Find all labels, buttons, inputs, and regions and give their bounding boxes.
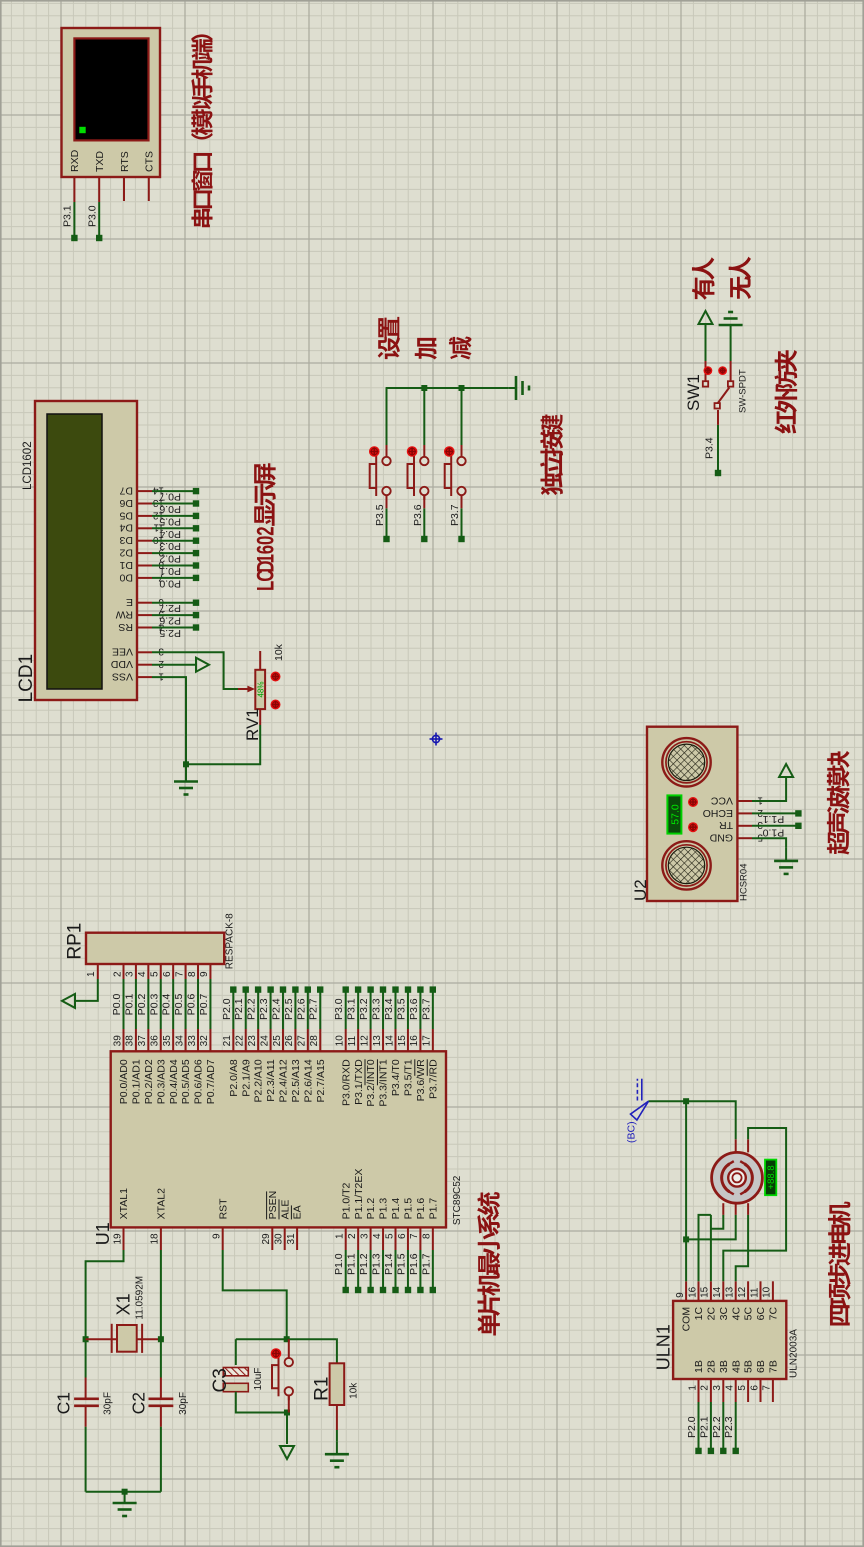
switch SW1: [717, 410, 719, 425]
wire net P2.7: [152, 602, 196, 604]
svg-text:3: 3: [158, 646, 164, 657]
U1 pin P2.7/A15 (pin 28): [319, 1029, 321, 1051]
junction bus P3.6: [421, 385, 427, 391]
svg-text:E: E: [126, 596, 133, 608]
LCD pin D2 (pin 9): [137, 552, 152, 554]
svg-text:7C: 7C: [768, 1306, 780, 1320]
pin TXD: [98, 177, 100, 202]
svg-text:XTAL2: XTAL2: [156, 1188, 168, 1219]
svg-text:RESPACK-8: RESPACK-8: [225, 913, 236, 969]
U1 pin P0.3/AD3 (pin 36): [160, 1029, 162, 1051]
LCD pin VEE (pin 3): [137, 651, 152, 653]
wire VSS to ground: [152, 677, 260, 764]
svg-text:HCSR04: HCSR04: [739, 864, 750, 902]
ULN1 pin 6B (pin 6): [760, 1379, 762, 1402]
potentiometer RV1 body: [255, 670, 265, 709]
label 超声波模块: [827, 751, 850, 855]
svg-text:27: 27: [297, 1035, 308, 1047]
wire net P2.2: [257, 990, 259, 1029]
svg-text:3: 3: [712, 1385, 723, 1391]
ULN1 pin 7B (pin 7): [772, 1379, 774, 1402]
node P3.6 terminal: [421, 536, 427, 542]
svg-text:ULN1: ULN1: [653, 1324, 673, 1370]
svg-text:VDD: VDD: [110, 658, 133, 670]
svg-text:P1.1: P1.1: [762, 813, 784, 825]
wire net P0.5: [152, 515, 196, 517]
svg-text:RW: RW: [116, 609, 133, 621]
svg-text:P2.5: P2.5: [283, 998, 295, 1020]
svg-text:4B: 4B: [730, 1360, 742, 1373]
wire 2C jog to motor phase A: [711, 1215, 723, 1229]
ground U2: [774, 860, 798, 863]
U1 pin P0.5/AD5 (pin 34): [185, 1029, 187, 1051]
svg-text:P1.7: P1.7: [420, 1253, 432, 1275]
node P0.3 terminal: [193, 538, 199, 544]
U1 pin P2.2/A10 (pin 23): [257, 1029, 259, 1051]
svg-text:3: 3: [757, 819, 763, 830]
label 加: [415, 338, 437, 360]
node P0.0 terminal: [193, 575, 199, 581]
svg-text:D7: D7: [119, 485, 133, 497]
wire net P1.1: [357, 1250, 359, 1290]
svg-text:3C: 3C: [718, 1306, 730, 1320]
node P1.0 terminal: [343, 1287, 349, 1293]
svg-text:VCC: VCC: [710, 794, 733, 806]
ground for LCD VSS: [174, 780, 198, 783]
wire net P0.7: [209, 979, 211, 1029]
svg-text:P2.2: P2.2: [711, 1416, 723, 1438]
svg-text:P0.0: P0.0: [111, 994, 123, 1016]
node P2.3 terminal: [733, 1448, 739, 1454]
node P1.5 terminal: [405, 1287, 411, 1293]
svg-text:P2.1/A9: P2.1/A9: [240, 1059, 252, 1097]
svg-text:P0.4/AD4: P0.4/AD4: [168, 1059, 180, 1104]
ground crystal caps: [113, 1502, 137, 1505]
svg-text:U1: U1: [93, 1222, 113, 1245]
svg-text:P1.0/T2: P1.0/T2: [340, 1182, 352, 1219]
svg-text:8: 8: [422, 1233, 433, 1239]
wire BC supply stem: [649, 1100, 687, 1102]
motor pin right tap: [735, 1139, 737, 1152]
svg-text:7: 7: [174, 971, 185, 977]
svg-text:P3.0/RXD: P3.0/RXD: [340, 1059, 352, 1106]
wire net P0.2: [147, 979, 149, 1029]
motor hub: [728, 1169, 746, 1187]
svg-text:VSS: VSS: [112, 671, 133, 683]
power symbol (BC): [631, 1101, 649, 1120]
svg-text:34: 34: [174, 1035, 185, 1047]
wire net P2.7: [319, 990, 321, 1029]
power arrow U2 VCC: [779, 764, 793, 777]
svg-text:2: 2: [253, 526, 280, 535]
U1 pin P2.3/A11 (pin 24): [270, 1029, 272, 1051]
svg-text:ECHO: ECHO: [703, 807, 733, 819]
U1 pin P0.1/AD1 (pin 38): [135, 1029, 137, 1051]
SW1 throw bottom wire to ground: [730, 361, 732, 381]
U1 pin EA (31): [296, 1227, 298, 1250]
svg-text:13: 13: [372, 1035, 383, 1047]
svg-text:P0.5/AD5: P0.5/AD5: [180, 1059, 192, 1104]
svg-text:P2.3/A11: P2.3/A11: [265, 1059, 277, 1102]
svg-text:0: 0: [253, 536, 280, 545]
button bus wire: [386, 387, 509, 389]
LCD pin RW (pin 5): [137, 614, 152, 616]
wire net P2.2 to ULN: [722, 1402, 724, 1451]
svg-text:5: 5: [384, 1233, 395, 1239]
wire net P2.0 to ULN: [698, 1402, 700, 1451]
label 有人: [692, 257, 715, 300]
svg-text:P3.7: P3.7: [449, 504, 461, 526]
node P0.2 terminal: [193, 550, 199, 556]
svg-text:16: 16: [409, 1035, 420, 1047]
wire net P0.6: [197, 979, 199, 1029]
RV1 wiper arrow: [238, 688, 250, 690]
LCD pin D4 (pin 11): [137, 527, 152, 529]
virtual terminal VT1 body: [62, 28, 161, 177]
wire XTAL1 to crystal: [86, 1250, 124, 1378]
wire net P1.0: [345, 1250, 347, 1290]
svg-text:P1.2: P1.2: [365, 1198, 377, 1220]
svg-text:5: 5: [757, 832, 763, 843]
svg-text:ALE: ALE: [279, 1200, 291, 1220]
svg-text:7: 7: [762, 1385, 773, 1391]
svg-text:P3.6/WR: P3.6/WR: [415, 1059, 427, 1101]
node P2.2 terminal: [720, 1448, 726, 1454]
svg-text:P0.2/AD2: P0.2/AD2: [143, 1059, 155, 1104]
wire net P0.6: [152, 503, 196, 505]
svg-text:P2.0: P2.0: [221, 998, 233, 1020]
ultrasonic module U2 body: [647, 727, 737, 901]
label 减: [449, 337, 472, 360]
wire net P0.4: [152, 527, 196, 529]
U1 pin P0.0/AD0 (pin 39): [123, 1029, 125, 1051]
LCD pin VDD (pin 2): [137, 664, 152, 666]
ULN1 pin COM (pin 9): [685, 1281, 687, 1301]
svg-text:1C: 1C: [693, 1306, 705, 1320]
wire net P0.0: [123, 979, 125, 1029]
svg-text:D0: D0: [119, 571, 133, 583]
wire 4C to motor phase B: [736, 1215, 748, 1281]
wire net P0.3: [160, 979, 162, 1029]
U1 pin P3.0/RXD (pin 10): [345, 1029, 347, 1051]
node P2.4 terminal: [280, 986, 286, 992]
wire net P2.6: [307, 990, 309, 1029]
wire net P3.2: [370, 990, 372, 1029]
svg-text:37: 37: [137, 1035, 148, 1047]
pin RTS: [123, 177, 125, 201]
svg-text:RXD: RXD: [69, 149, 81, 172]
wire net P3.5: [407, 990, 409, 1029]
svg-text:P3.7: P3.7: [420, 998, 432, 1020]
capacitor C3 (electrolytic): [223, 1368, 248, 1376]
svg-text:P0.1/AD1: P0.1/AD1: [131, 1059, 143, 1104]
svg-text:D5: D5: [119, 509, 133, 521]
svg-text:1: 1: [158, 671, 164, 682]
motor pin left tap: [735, 1203, 737, 1215]
node P2.6 terminal: [193, 612, 199, 618]
node P1.6 terminal: [417, 1287, 423, 1293]
LCD pin D3 (pin 10): [137, 540, 152, 542]
svg-text:6C: 6C: [755, 1306, 767, 1320]
capacitor C2: [149, 1398, 174, 1401]
svg-text:P2.4/A12: P2.4/A12: [278, 1059, 290, 1102]
wire net P0.1: [152, 565, 196, 567]
svg-text:35: 35: [162, 1035, 173, 1047]
junction bus P3.7: [459, 385, 465, 391]
node P0.6 terminal: [193, 500, 199, 506]
svg-text:P2.3: P2.3: [258, 998, 270, 1020]
svg-text:11: 11: [749, 1287, 760, 1298]
svg-text:D3: D3: [119, 534, 133, 546]
svg-text:4: 4: [372, 1233, 383, 1239]
driver ULN1 body: [673, 1301, 786, 1379]
ULN1 pin 5B (pin 5): [747, 1379, 749, 1402]
U1 pin P3.1/TXD (pin 11): [357, 1029, 359, 1051]
svg-text:6: 6: [253, 545, 280, 554]
svg-text:RP1: RP1: [65, 923, 86, 960]
resistor pack RP1 body: [86, 933, 224, 964]
wire RP1 pin1 to power: [75, 979, 98, 1001]
U1 pin XTAL2 (pin 18): [160, 1227, 162, 1250]
terminal screen: [74, 38, 148, 140]
svg-text:19: 19: [112, 1233, 123, 1245]
junction crystal top: [83, 1336, 89, 1342]
svg-text:P3.2: P3.2: [358, 998, 370, 1020]
wire net P2.0: [232, 990, 234, 1029]
U1 pin XTAL1 (pin 19): [123, 1227, 125, 1250]
svg-text:48%: 48%: [257, 681, 266, 697]
svg-text:ULN2003A: ULN2003A: [788, 1329, 799, 1378]
svg-text:P2.2/A10: P2.2/A10: [253, 1059, 265, 1102]
svg-text:P0.2: P0.2: [159, 553, 181, 565]
wire COM to motor tap right: [686, 1101, 736, 1139]
wire net P3.7: [432, 990, 434, 1029]
svg-text:P3.2/INT0: P3.2/INT0: [365, 1059, 377, 1106]
svg-text:P1.5: P1.5: [395, 1253, 407, 1275]
ULN1 pin 3C (pin 14): [722, 1281, 724, 1301]
svg-text:XTAL1: XTAL1: [118, 1188, 130, 1219]
svg-text:P1.4: P1.4: [383, 1253, 395, 1275]
ULN1 pin 4C (pin 13): [735, 1281, 737, 1301]
svg-text:P0.4: P0.4: [161, 994, 173, 1016]
LCD pin D1 (pin 8): [137, 565, 152, 567]
svg-text:28: 28: [309, 1035, 320, 1047]
svg-text:P3.0: P3.0: [333, 998, 345, 1020]
wire net P2.1: [245, 990, 247, 1029]
wire net P2.4: [282, 990, 284, 1029]
svg-text:P3.5: P3.5: [374, 504, 386, 526]
label 独立按键: [540, 414, 563, 495]
motor pin right C: [747, 1139, 749, 1152]
svg-text:PSEN: PSEN: [267, 1191, 279, 1220]
wire net P0.0: [152, 577, 196, 579]
U1 pin P3.6/WR (pin 16): [419, 1029, 421, 1051]
svg-text:21: 21: [222, 1035, 233, 1047]
node P3.1 terminal: [71, 235, 77, 241]
power arrow RP1: [62, 994, 75, 1008]
ULN1 pin 2B (pin 2): [710, 1379, 712, 1402]
svg-text:16: 16: [687, 1286, 698, 1298]
wire net P2.1 to ULN: [710, 1402, 712, 1451]
svg-text:P2.7: P2.7: [308, 998, 320, 1020]
wire XTAL2 to crystal: [160, 1250, 162, 1378]
svg-text:P3.6: P3.6: [412, 504, 424, 526]
wire net P2.5: [152, 627, 196, 629]
U1 pin P2.6/A14 (pin 27): [307, 1029, 309, 1051]
svg-text:12: 12: [737, 1286, 748, 1298]
svg-text:D4: D4: [119, 522, 133, 534]
ULN1 pin 5C (pin 12): [747, 1281, 749, 1301]
RP1 pin 9: [209, 964, 211, 979]
U2 adjust arrow right: [688, 797, 698, 807]
svg-text:13: 13: [725, 1286, 736, 1298]
svg-text:10k: 10k: [273, 643, 285, 661]
svg-text:8: 8: [187, 971, 198, 977]
node P1.2 terminal: [367, 1287, 373, 1293]
junction cap bus: [122, 1489, 128, 1495]
node P3.0 terminal: [343, 986, 349, 992]
svg-text:P1.0: P1.0: [333, 1253, 345, 1275]
ULN1 pin 6C (pin 11): [760, 1281, 762, 1301]
U1 pin P1.7 (pin 8): [432, 1227, 434, 1250]
svg-text:P3.5: P3.5: [395, 998, 407, 1020]
svg-text:P2.4: P2.4: [270, 998, 282, 1020]
svg-text:P3.1: P3.1: [346, 998, 358, 1020]
svg-text:11: 11: [347, 1035, 358, 1046]
U1 pin P0.6/AD6 (pin 33): [197, 1029, 199, 1051]
svg-text:3: 3: [125, 971, 136, 977]
RP1 pin 5: [160, 964, 162, 979]
svg-text:P2.6: P2.6: [295, 998, 307, 1020]
svg-text:2: 2: [757, 807, 763, 818]
node P3.5 terminal: [405, 986, 411, 992]
U1 pin PSEN (29): [271, 1227, 273, 1250]
wire net P0.4: [172, 979, 174, 1029]
svg-text:P0.3/AD3: P0.3/AD3: [155, 1059, 167, 1104]
U1 pin RST (pin 9): [222, 1227, 224, 1250]
label 串口窗口（模拟手机端）: [191, 34, 213, 227]
junction COM B: [683, 1098, 689, 1104]
wire C2 to bus: [160, 1427, 162, 1492]
svg-text:5: 5: [737, 1385, 748, 1391]
svg-text:P1.4: P1.4: [390, 1198, 402, 1220]
wire net P3.6: [419, 990, 421, 1029]
label 设置: [378, 317, 400, 359]
wire net P2.3: [270, 990, 272, 1029]
svg-text:P0.7/AD7: P0.7/AD7: [205, 1059, 217, 1104]
U1 pin P1.6 (pin 7): [419, 1227, 421, 1250]
junction C3/reset button: [284, 1410, 290, 1416]
wire bus to ground: [124, 1492, 126, 1503]
U1 pin P1.3 (pin 4): [382, 1227, 384, 1250]
node P2.5 terminal: [193, 624, 199, 630]
wire net P0.5: [185, 979, 187, 1029]
svg-text:14: 14: [712, 1286, 723, 1298]
svg-text:P3.1: P3.1: [62, 205, 74, 227]
svg-text:P1.3: P1.3: [371, 1253, 383, 1275]
RP1 pin 4: [147, 964, 149, 979]
svg-text:1: 1: [253, 554, 280, 563]
svg-text:5B: 5B: [743, 1360, 755, 1373]
node P2.5 terminal: [292, 986, 298, 992]
svg-text:2B: 2B: [706, 1360, 718, 1373]
resistor R1: [330, 1363, 345, 1405]
svg-text:10uF: 10uF: [253, 1368, 264, 1391]
U1 pin P1.2 (pin 3): [370, 1227, 372, 1250]
svg-text:7B: 7B: [768, 1360, 780, 1373]
svg-text:P3.7/RD: P3.7/RD: [427, 1059, 439, 1099]
ULN1 pin 3B (pin 3): [722, 1379, 724, 1402]
node P3.5 terminal: [383, 536, 389, 542]
node P2.7 terminal: [317, 986, 323, 992]
label 无人: [729, 257, 751, 299]
svg-text:10: 10: [762, 1286, 773, 1298]
cap bus wire: [86, 1491, 161, 1493]
node P2.1 terminal: [708, 1448, 714, 1454]
junction crystal bottom: [158, 1336, 164, 1342]
svg-text:57.0: 57.0: [669, 804, 681, 825]
LCD pin D6 (pin 13): [137, 503, 152, 505]
wire net P0.3: [152, 540, 196, 542]
U2 pin TR (pin 3): [737, 825, 752, 827]
LCD pin D7 (pin 14): [137, 490, 152, 492]
svg-text:P1.1: P1.1: [346, 1253, 358, 1275]
svg-text:10k: 10k: [349, 1382, 360, 1399]
svg-text:P2.7/A15: P2.7/A15: [315, 1059, 327, 1102]
svg-text:39: 39: [112, 1035, 123, 1047]
reset button wire vertical: [287, 1412, 289, 1414]
motor pin left A: [722, 1203, 724, 1215]
svg-text:3B: 3B: [718, 1360, 730, 1373]
svg-text:1: 1: [335, 1233, 346, 1239]
wire net P1.7: [432, 1250, 434, 1290]
U2 pin ECHO (pin 2): [737, 812, 752, 814]
SW1 toggle indicator up: [704, 366, 713, 375]
node P0.5 terminal: [193, 513, 199, 519]
power arrow reset: [280, 1446, 294, 1459]
node P3.0 terminal: [96, 235, 102, 241]
svg-text:15: 15: [397, 1035, 408, 1047]
label 单片机最小系统: [477, 1192, 500, 1335]
node P1.4 terminal: [392, 1287, 398, 1293]
svg-text:4: 4: [725, 1385, 736, 1391]
LCD pin VSS (pin 1): [137, 676, 152, 678]
svg-text:U2: U2: [631, 879, 650, 901]
U1 pin ALE (30): [284, 1227, 286, 1250]
LCD pin E (pin 6): [137, 602, 152, 604]
wire C1 to bus: [85, 1427, 87, 1492]
svg-text:P3.4: P3.4: [704, 437, 716, 459]
node P0.7 terminal: [193, 488, 199, 494]
node P3.4 terminal: [715, 470, 721, 476]
wire to button bus: [386, 388, 388, 445]
svg-text:X1: X1: [114, 1293, 134, 1315]
ground R1: [325, 1453, 349, 1456]
svg-text:C3: C3: [210, 1368, 231, 1392]
svg-text:CTS: CTS: [144, 151, 156, 172]
svg-text:P2.1: P2.1: [233, 998, 245, 1020]
wire 1C to motor: [699, 1215, 711, 1281]
wire net P3.1: [357, 990, 359, 1029]
svg-text:P1.6: P1.6: [408, 1253, 420, 1275]
ground SW1: [719, 324, 743, 327]
svg-text:10: 10: [335, 1035, 346, 1047]
U2 adjust arrow left: [688, 822, 698, 832]
node P2.0 terminal: [230, 986, 236, 992]
svg-text:5C: 5C: [743, 1306, 755, 1320]
RP1 pin 7: [185, 964, 187, 979]
node P3.2 terminal: [367, 986, 373, 992]
